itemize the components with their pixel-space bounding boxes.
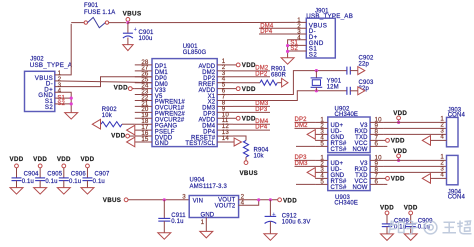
U901 right pin 5 AVDD	[217, 88, 233, 90]
svg-text:VDD: VDD	[80, 156, 94, 163]
capacitor C908 0.1u	[382, 223, 392, 225]
capacitor C904 0.1u	[12, 177, 22, 179]
U903 left pin 3 GND	[315, 171, 328, 173]
svg-text:C904: C904	[24, 172, 39, 178]
junction J901 S2	[286, 50, 289, 53]
svg-text:DM3: DM3	[295, 161, 309, 167]
J901 pin 1 stub	[295, 21, 306, 23]
U901 left pin 16 DVDD	[135, 135, 152, 137]
svg-text:+: +	[134, 27, 137, 33]
svg-text:+: +	[272, 212, 275, 218]
U901 right pin 1 AVDD	[217, 64, 233, 66]
svg-text:S2: S2	[290, 46, 298, 52]
svg-text:0.1u: 0.1u	[69, 179, 81, 185]
svg-text:DM2: DM2	[295, 123, 309, 129]
power port VDD at regulator output	[278, 198, 282, 202]
svg-text:TEST/SCL: TEST/SCL	[185, 141, 215, 147]
junction C912 tap	[269, 198, 272, 201]
svg-text:S2: S2	[45, 104, 54, 111]
svg-text:VDD: VDD	[380, 204, 394, 211]
U901 left pin 19 OVCUR2#	[135, 117, 152, 119]
svg-text:VDD: VDD	[404, 204, 418, 211]
J901 pin 4 GND wire	[288, 40, 307, 58]
svg-text:4: 4	[440, 172, 444, 179]
svg-text:VBUS: VBUS	[103, 197, 121, 204]
svg-text:1: 1	[201, 219, 205, 226]
wire U902 V3 to J903 pin1	[383, 121, 446, 123]
svg-text:GND: GND	[201, 213, 215, 219]
ground below C904	[10, 188, 23, 195]
wire U902 TXD to J903 pin3	[383, 133, 446, 135]
U901 right pin 10 AVDD	[217, 117, 233, 119]
U901 right pin 9 DP3	[217, 111, 233, 113]
ground arrow at PSELF	[127, 125, 135, 135]
U902 right pin 10 V3	[370, 121, 383, 123]
U901 right pin 3 DP2	[217, 76, 233, 78]
svg-text:4: 4	[241, 199, 245, 206]
svg-text:22p: 22p	[359, 61, 370, 67]
svg-text:GND: GND	[155, 141, 169, 147]
junction crystal top	[315, 69, 318, 72]
U903 left pin 4 RTS#	[315, 177, 328, 179]
power port VDD at U903 VCC	[383, 177, 385, 179]
J902 pin 3 wire D+ to DP0	[55, 77, 152, 87]
svg-text:USB_TYPE_AB: USB_TYPE_AB	[306, 13, 353, 20]
U901 left pin 23 V5	[135, 94, 152, 96]
U901 left pin 18 PGANG	[135, 123, 152, 125]
U902 right pin 9 RXD	[370, 127, 383, 129]
U903 right pin 7 VCC	[370, 177, 383, 179]
ground below C905	[34, 188, 47, 195]
svg-text:680R: 680R	[271, 72, 286, 78]
ground arrow at U902 GND	[307, 130, 315, 140]
ground below C909	[404, 234, 417, 241]
svg-text:0.1u: 0.1u	[93, 179, 105, 185]
power port VBUS below R904	[244, 161, 248, 165]
junction VDD tap U902	[397, 121, 400, 124]
svg-text:CTS#: CTS#	[331, 185, 347, 191]
J902 pin 2 wire D- to DM0	[55, 81, 152, 83]
svg-text:VDD: VDD	[393, 110, 407, 117]
capacitor C909 0.1u	[406, 223, 416, 225]
U903 left pin 2 UD-	[315, 165, 328, 167]
ground below C908	[381, 234, 394, 241]
crystal Y901 12M	[315, 71, 317, 78]
svg-text:VOUT2: VOUT2	[215, 204, 236, 210]
ground below U904	[200, 231, 213, 238]
svg-text:F901: F901	[84, 3, 99, 9]
svg-text:CON4: CON4	[448, 195, 466, 201]
U903 right pin 10 V3	[370, 159, 383, 161]
U901 right pin 11 DM4	[217, 123, 233, 125]
wire stub at U902 NOW pin	[383, 145, 387, 147]
J901 pin S2 wire	[288, 50, 307, 52]
svg-text:VDD: VDD	[111, 133, 125, 140]
U901 left pin 21 OVCUR1#	[135, 105, 152, 107]
wire DP2 net	[233, 76, 270, 78]
svg-text:S2: S2	[309, 51, 318, 58]
svg-text:4: 4	[58, 88, 62, 95]
U902 left pin 1 UD+	[315, 121, 328, 123]
ground arrow at U901 GND pin15	[127, 137, 135, 147]
junction crystal bottom	[315, 89, 318, 92]
junction J901 S1	[286, 44, 289, 47]
svg-text:VDD: VDD	[114, 85, 128, 92]
svg-text:NOW: NOW	[352, 147, 367, 153]
U901 right pin 6 X1	[217, 94, 233, 96]
svg-text:VDD: VDD	[391, 138, 405, 145]
power port VDD at DVDD	[129, 135, 134, 137]
svg-text:3: 3	[182, 193, 186, 200]
wire U903 TXD to J904 pin3	[383, 171, 446, 173]
svg-text:VDD: VDD	[283, 197, 297, 204]
U901 left pin 28 DP1	[135, 64, 152, 66]
svg-text:S2: S2	[57, 101, 65, 107]
svg-text:VIN: VIN	[193, 198, 203, 204]
svg-text:5: 5	[320, 140, 324, 147]
U901 left pin 25 DM0	[135, 82, 152, 84]
capacitor C906 0.1u	[59, 177, 69, 179]
capacitor C901	[127, 23, 129, 33]
svg-text:C905: C905	[47, 172, 62, 178]
J901 pin 3 wire DP4	[259, 33, 306, 35]
U904 GND pin1 stub	[205, 218, 207, 232]
wire stub at U903 NOW pin	[383, 183, 387, 185]
svg-text:VBUS: VBUS	[123, 11, 142, 18]
ground arrow after R901	[282, 78, 288, 87]
U901 right pin 4 RREF	[217, 82, 233, 84]
power port VDD at AVDD pin 10	[233, 117, 236, 119]
wire DP2 to U902 UD+	[295, 121, 316, 123]
U901 left pin 27 DM1	[135, 70, 152, 72]
wire VBUS to J901 pin1	[128, 21, 295, 23]
capacitor C905 0.1u	[35, 177, 45, 179]
resistor R904 10k on RESET#	[233, 136, 246, 140]
wire DM3 net	[233, 105, 270, 107]
ground below J902	[65, 113, 78, 120]
ground arrow after C902	[358, 67, 365, 75]
junction S2	[70, 102, 73, 105]
U904 VOUT2 pin4 wire	[239, 200, 259, 206]
svg-text:CTS#: CTS#	[331, 147, 347, 153]
junction S1	[70, 97, 73, 100]
svg-text:0.1u: 0.1u	[22, 179, 34, 185]
ground below J901	[281, 58, 294, 64]
junction VDD tap U903	[397, 159, 400, 162]
wire at U902 CTS#	[296, 145, 315, 147]
ground arrow left of R902	[92, 119, 100, 129]
svg-text:DP4: DP4	[255, 125, 268, 131]
ground arrow at U903 GND	[307, 168, 315, 178]
wire U903 V3 to J904 pin1	[383, 159, 446, 161]
U901 right pin 8 DM3	[217, 105, 233, 107]
svg-text:0.1u: 0.1u	[45, 179, 57, 185]
U901 left pin 24 V33	[135, 88, 152, 90]
U902 right pin 7 VCC	[370, 139, 383, 141]
wire U903 RXD to J904 pin2	[383, 165, 446, 167]
U903 right pin 6 NOW	[370, 183, 383, 185]
J901 pin S1 wire	[288, 44, 307, 46]
U901 right pin 12 DP4	[217, 129, 233, 131]
U903 left pin 5 CTS#	[315, 183, 328, 185]
resistor R901 680R on RREF	[233, 82, 260, 84]
capacitor C907 0.1u	[82, 177, 92, 179]
wire DP3 to U903 UD+	[295, 159, 316, 161]
U903 right pin 9 RXD	[370, 165, 383, 167]
watermark zhihu	[388, 221, 472, 235]
svg-text:VDD: VDD	[242, 116, 256, 123]
wire DM2 to U902 UD-	[295, 127, 316, 129]
junction VBUS node	[126, 21, 129, 24]
svg-text:6: 6	[375, 178, 379, 185]
wire DM3 to U903 UD-	[295, 165, 316, 167]
U902 left pin 5 CTS#	[315, 145, 328, 147]
U902 right pin 6 NOW	[370, 145, 383, 147]
ground arrow to J904 pin4	[431, 177, 447, 179]
wire U902 RXD to J903 pin2	[383, 127, 446, 129]
ground arrow to J903 pin4	[431, 139, 447, 141]
ground arrow after C903	[358, 87, 365, 95]
svg-text:USB_TYPE_A: USB_TYPE_A	[30, 62, 73, 69]
J902 pin 4 GND wire	[55, 92, 71, 112]
junction VOUT join	[257, 198, 260, 201]
svg-text:10k: 10k	[102, 113, 113, 119]
svg-text:0.1u: 0.1u	[171, 219, 183, 225]
svg-text:VDD: VDD	[33, 156, 47, 163]
svg-text:VBUS: VBUS	[240, 170, 258, 177]
U901 right pin 7 X2	[217, 99, 233, 101]
svg-text:VDD: VDD	[242, 62, 256, 69]
J902 pin S2 wire	[55, 103, 71, 105]
svg-text:VDD: VDD	[391, 176, 405, 183]
U901 left pin 15 GND	[135, 141, 152, 143]
wire DM2 net	[233, 70, 270, 72]
svg-text:DP2: DP2	[255, 71, 268, 77]
ground below C906	[57, 188, 70, 195]
svg-text:12M: 12M	[327, 85, 339, 91]
capacitor C911 0.1u	[163, 200, 165, 218]
ground below C912	[264, 234, 277, 241]
svg-text:FUSE 1.1A: FUSE 1.1A	[84, 10, 115, 16]
U902 left pin 2 UD-	[315, 127, 328, 129]
svg-text:4: 4	[440, 134, 444, 141]
ground below C901	[123, 45, 133, 51]
wire X1 to crystal top	[233, 71, 347, 95]
wire DP4 net	[233, 129, 270, 131]
svg-text:AMS1117-3.3: AMS1117-3.3	[190, 184, 228, 190]
svg-text:10k: 10k	[254, 153, 265, 159]
U903 right pin 8 TXD	[370, 171, 383, 173]
capacitor C912 100u 6.3V	[269, 200, 271, 216]
wire at U903 CTS#	[296, 183, 315, 185]
U902 right pin 8 TXD	[370, 133, 383, 135]
J901 pin 2 wire DM4	[259, 27, 306, 29]
svg-text:6: 6	[375, 140, 379, 147]
svg-text:15: 15	[141, 136, 149, 143]
ground arrow at TEST/SCL	[233, 141, 234, 143]
svg-text:DP4: DP4	[260, 29, 273, 35]
svg-text:14: 14	[222, 135, 230, 142]
svg-text:NOW: NOW	[352, 185, 367, 191]
power port VDD at AVDD pin 1	[233, 64, 236, 66]
U901 left pin 26 DP0	[135, 76, 152, 78]
fuse F901	[71, 22, 84, 24]
svg-text:VDD: VDD	[242, 86, 256, 93]
svg-text:VDD: VDD	[57, 156, 71, 163]
svg-text:C906: C906	[71, 172, 86, 178]
capacitor C902 22p	[346, 67, 348, 75]
U901 right pin 2 DM2	[217, 70, 233, 72]
U902 left pin 4 RTS#	[315, 139, 328, 141]
wire DP3 net	[233, 111, 270, 113]
ground below C907	[81, 188, 94, 195]
svg-text:5: 5	[320, 178, 324, 185]
wire X2 to crystal bottom	[233, 91, 347, 101]
J902 pin 1 wire to fuse	[55, 24, 71, 75]
svg-text:DP3: DP3	[255, 107, 268, 113]
svg-text:U904: U904	[190, 178, 205, 184]
svg-text:100u: 100u	[139, 36, 153, 42]
U901 left pin 20 PWREN2#	[135, 111, 152, 113]
power port VDD at V33	[132, 88, 135, 90]
U901 left pin 22 PWREN1#	[135, 99, 152, 101]
svg-text:Y901: Y901	[327, 79, 342, 85]
U902 left pin 3 GND	[315, 133, 328, 135]
U903 left pin 1 UD+	[315, 159, 328, 161]
power port VDD at AVDD pin 5	[233, 88, 236, 90]
J902 pin S1 wire	[55, 97, 71, 99]
svg-text:VDD: VDD	[393, 148, 407, 155]
power port VDD at U902 VCC	[383, 139, 385, 141]
svg-text:100u 6.3V: 100u 6.3V	[282, 219, 311, 225]
capacitor C903 22p	[346, 87, 348, 95]
U901 right pin 13 RESET#	[217, 135, 233, 137]
svg-text:GL850G: GL850G	[183, 50, 207, 56]
U901 right pin 14 TEST/SCL	[217, 141, 233, 143]
wire DM4 net	[233, 123, 270, 125]
svg-text:VDD: VDD	[10, 156, 24, 163]
resistor R902 10k on PGANG	[101, 122, 122, 127]
ground below C911	[158, 233, 171, 240]
junction C911 tap	[163, 198, 166, 201]
svg-text:CH340E: CH340E	[334, 201, 358, 207]
U901 left pin 17 PSELF	[135, 129, 152, 131]
wire VBUS to VIN	[128, 199, 189, 201]
U904 VOUT pin2 wire	[239, 199, 278, 201]
svg-text:C907: C907	[95, 172, 110, 178]
